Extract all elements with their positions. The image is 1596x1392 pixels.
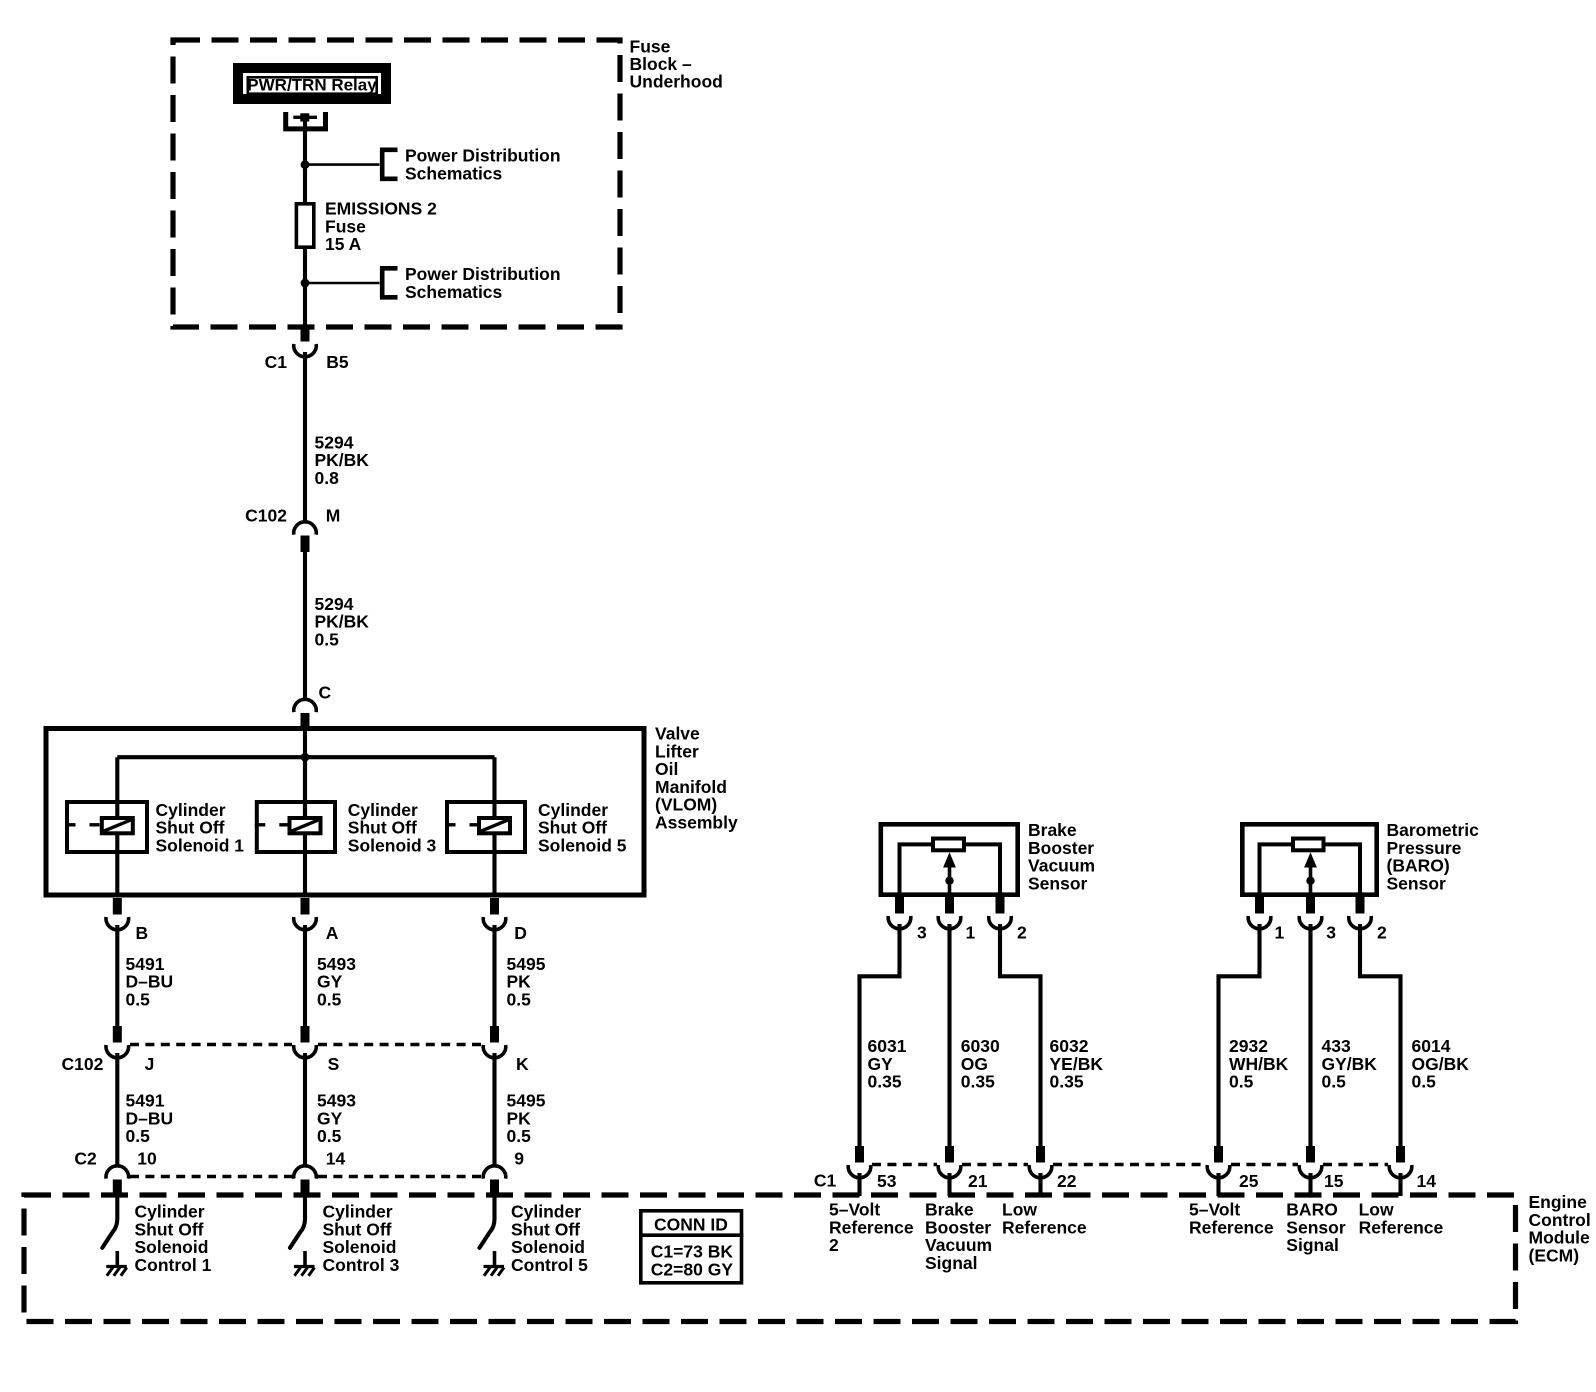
label: Power Distribution Schematics (upper) bbox=[405, 146, 561, 184]
svg-text:Assembly: Assembly bbox=[655, 813, 738, 833]
wire: bus drop to cylinder shut off solenoid 1 bbox=[115, 757, 119, 818]
svg-text:C102: C102 bbox=[245, 506, 287, 526]
label: Power Distribution Schematics (lower) bbox=[405, 264, 561, 302]
wire 6032 YE/BK 0.35 bbox=[1000, 924, 1041, 1146]
wire: pin 22 into ECM bbox=[1038, 1173, 1042, 1196]
svg-text:D: D bbox=[514, 923, 527, 943]
brake booster vacuum wiper junction dot bbox=[945, 877, 953, 885]
wire 6014 OG/BK 0.5 bbox=[1360, 924, 1401, 1146]
solenoid L1 coil body (rect with diagonal) bbox=[102, 818, 133, 833]
inline connector C102 dashed tie line (S-K) bbox=[318, 1043, 482, 1047]
solenoid L5 armature dashes bbox=[445, 823, 480, 826]
label: brake booster vacuum pin 1 bbox=[966, 922, 976, 942]
svg-text:B: B bbox=[136, 923, 149, 943]
label: ECM function 5–Volt Reference bbox=[1189, 1200, 1274, 1238]
svg-text:2: 2 bbox=[829, 1235, 839, 1255]
label: pin 14 bbox=[326, 1149, 346, 1169]
BARO connector pin 2 bbox=[1349, 897, 1372, 929]
svg-text:Sensor: Sensor bbox=[1387, 873, 1447, 893]
svg-text:C: C bbox=[319, 683, 332, 703]
brake booster vacuum sensor box bbox=[881, 824, 1018, 894]
label: BARO pin 3 bbox=[1326, 922, 1336, 942]
svg-text:15 A: 15 A bbox=[325, 234, 362, 254]
brake booster vacuum wiper arrow bbox=[943, 852, 956, 897]
svg-text:0.5: 0.5 bbox=[126, 1126, 151, 1146]
label: Cylinder Shut Off Solenoid 5 bbox=[538, 800, 627, 856]
svg-text:Control 5: Control 5 bbox=[511, 1255, 588, 1275]
label: pin 22 bbox=[1057, 1171, 1077, 1191]
label: Cylinder Shut Off Solenoid Control 3 bbox=[323, 1202, 400, 1275]
label: brake booster vacuum pin 3 bbox=[917, 922, 927, 942]
label: 5491 D–BU 0.5 (lower) bbox=[126, 1091, 174, 1147]
svg-text:Reference: Reference bbox=[829, 1217, 914, 1237]
label: EMISSIONS 2 Fuse 15 A bbox=[325, 199, 437, 255]
junction node (above fuse) bbox=[301, 160, 310, 169]
ground (chassis) for driver 5 bbox=[484, 1267, 505, 1276]
label: 6030 OG 0.35 bbox=[961, 1036, 1000, 1092]
svg-text:0.5: 0.5 bbox=[317, 989, 342, 1009]
label: BARO sensor name bbox=[1387, 820, 1480, 893]
brake booster vacuum connector pin 1 bbox=[938, 897, 961, 929]
svg-text:S: S bbox=[328, 1054, 340, 1074]
label: ECM function Low Reference bbox=[1359, 1200, 1444, 1238]
BARO wiper arrow bbox=[1304, 852, 1317, 897]
label: 433 GY/BK 0.5 bbox=[1322, 1036, 1378, 1092]
svg-text:Reference: Reference bbox=[1189, 1217, 1274, 1237]
wire 5495 PK (lower run) bbox=[492, 1053, 496, 1165]
label: C102 (lower inline connector) bbox=[62, 1054, 104, 1074]
wire: pin 14 into ECM bbox=[1398, 1173, 1402, 1196]
BARO pot right wire bbox=[1326, 844, 1361, 895]
svg-text:10: 10 bbox=[137, 1149, 157, 1169]
label: pin K bbox=[516, 1054, 529, 1074]
connector VLOM pin A bbox=[294, 898, 317, 930]
svg-text:53: 53 bbox=[877, 1171, 897, 1191]
label: PWR/TRN Relay bbox=[247, 76, 377, 95]
brake booster vacuum connector pin 2 bbox=[989, 897, 1012, 929]
svg-text:0.5: 0.5 bbox=[1229, 1072, 1254, 1092]
connector VLOM pin B bbox=[106, 898, 129, 930]
label: pin A bbox=[326, 923, 339, 943]
connector C1 pin B5 (fuse block exit) bbox=[294, 325, 317, 357]
connector C1 dashed tie line (segment 5) bbox=[1323, 1163, 1388, 1167]
connector C1 pin 53 bbox=[848, 1146, 871, 1178]
svg-text:Schematics: Schematics bbox=[405, 163, 503, 183]
transistor switch: solenoid control driver 1 bbox=[102, 1196, 117, 1248]
label: BARO pin 2 bbox=[1377, 922, 1387, 942]
svg-text:0.5: 0.5 bbox=[1412, 1072, 1437, 1092]
svg-text:Schematics: Schematics bbox=[405, 282, 503, 302]
svg-text:0.35: 0.35 bbox=[1050, 1072, 1084, 1092]
svg-text:C2: C2 bbox=[74, 1149, 97, 1169]
svg-text:C1: C1 bbox=[265, 352, 288, 372]
relay contact symbol (U bracket with T stem) bbox=[286, 112, 326, 129]
label: C2 bbox=[74, 1149, 97, 1169]
connector C1 pin 21 bbox=[938, 1146, 961, 1178]
junction node (below fuse) bbox=[301, 279, 310, 288]
connector C2 pin 9 bbox=[483, 1166, 506, 1196]
label: C2=80 GY bbox=[651, 1259, 734, 1279]
svg-text:21: 21 bbox=[968, 1171, 988, 1191]
wire 5294 PK/BK 0.8 bbox=[303, 352, 307, 521]
svg-text:25: 25 bbox=[1239, 1171, 1259, 1191]
connector C1 dashed tie line (segment 4) bbox=[1231, 1163, 1298, 1167]
junction node on VLOM bus bbox=[301, 753, 310, 762]
connector C1 dashed tie line (segment 3) bbox=[1053, 1163, 1206, 1167]
BARO pot left wire bbox=[1260, 844, 1292, 895]
svg-text:0.5: 0.5 bbox=[126, 989, 151, 1009]
connector C102 pin K bbox=[483, 1026, 506, 1058]
brake booster vacuum connector pin 3 bbox=[888, 897, 911, 929]
label: 2932 WH/BK 0.5 bbox=[1229, 1036, 1289, 1092]
svg-text:0.5: 0.5 bbox=[315, 630, 340, 650]
label: Cylinder Shut Off Solenoid 1 bbox=[156, 800, 245, 856]
label: BARO pin 1 bbox=[1275, 922, 1285, 942]
transistor switch: solenoid control driver 5 bbox=[480, 1196, 495, 1248]
label: B5 bbox=[326, 352, 349, 372]
label: pin D bbox=[514, 923, 527, 943]
label: 5491 D–BU 0.5 (upper) bbox=[126, 954, 174, 1010]
connector C102 pin M (upper half) bbox=[294, 522, 317, 552]
label: pin S bbox=[328, 1054, 340, 1074]
wire: driver 1 fixed contact bbox=[116, 1251, 120, 1267]
solenoid L5: Cylinder Shut Off Solenoid 5 (outline box) bbox=[447, 802, 525, 852]
connector C1 pin 22 bbox=[1029, 1146, 1052, 1178]
svg-text:K: K bbox=[516, 1054, 529, 1074]
wire 5495 PK (upper run) bbox=[492, 925, 496, 1026]
label: Valve Lifter Oil Manifold (VLOM) Assembly bbox=[655, 724, 738, 833]
svg-text:1: 1 bbox=[966, 922, 976, 942]
svg-text:(ECM): (ECM) bbox=[1529, 1245, 1580, 1265]
solenoid L3: Cylinder Shut Off Solenoid 3 (outline box) bbox=[257, 802, 335, 852]
svg-text:Reference: Reference bbox=[1002, 1217, 1087, 1237]
wire: driver 5 fixed contact bbox=[493, 1251, 497, 1267]
label: pin B bbox=[136, 923, 149, 943]
connector C2 dashed tie line (14-9) bbox=[318, 1175, 482, 1179]
svg-text:0.5: 0.5 bbox=[507, 1126, 532, 1146]
connector C2 dashed tie line (10-14) bbox=[130, 1175, 292, 1179]
off-page reference bracket (lower) bbox=[382, 268, 397, 297]
wire: solenoid 3 to VLOM edge bbox=[303, 835, 307, 897]
connector C102 pin J bbox=[106, 1026, 129, 1058]
solenoid L3 armature dashes bbox=[255, 823, 289, 826]
label: C1=73 BK bbox=[651, 1242, 734, 1262]
wire: relay output down through fuse block bbox=[303, 119, 307, 326]
svg-text:Underhood: Underhood bbox=[630, 72, 723, 92]
wire 5493 GY (upper run) bbox=[303, 925, 307, 1026]
CONN ID table (box) bbox=[639, 1211, 743, 1283]
svg-text:22: 22 bbox=[1057, 1171, 1077, 1191]
label: Cylinder Shut Off Solenoid Control 1 bbox=[135, 1202, 212, 1275]
brake booster vacuum pot left wire bbox=[900, 844, 932, 895]
label: C bbox=[319, 683, 332, 703]
label: pin 9 bbox=[514, 1149, 524, 1169]
label: 5495 PK 0.5 (lower) bbox=[507, 1091, 546, 1147]
solenoid L5 coil body (rect with diagonal) bbox=[479, 818, 510, 833]
label: 5294 PK/BK 0.8 bbox=[315, 432, 370, 488]
connector C1 dashed tie line (segment 2) bbox=[962, 1163, 1028, 1167]
BARO wiper junction dot bbox=[1306, 877, 1314, 885]
svg-text:0.5: 0.5 bbox=[317, 1126, 342, 1146]
label: pin 10 bbox=[137, 1149, 157, 1169]
valve lifter oil manifold (VLOM) assembly box bbox=[46, 729, 644, 896]
svg-text:C2=80 GY: C2=80 GY bbox=[651, 1259, 734, 1279]
wire: pin 53 into ECM bbox=[857, 1173, 861, 1196]
engine control module (ECM) dashed outline box bbox=[24, 1195, 1516, 1322]
wire 5294 PK/BK 0.5 bbox=[303, 550, 307, 699]
svg-text:PWR/TRN Relay: PWR/TRN Relay bbox=[247, 76, 377, 95]
label: Cylinder Shut Off Solenoid Control 5 bbox=[511, 1202, 588, 1275]
label: C102 (inline connector) bbox=[245, 506, 287, 526]
wire 5491 D–BU (lower run) bbox=[115, 1053, 119, 1165]
wire 433 GY/BK 0.5 bbox=[1308, 924, 1312, 1146]
wire: pin 25 into ECM bbox=[1216, 1173, 1220, 1196]
svg-text:M: M bbox=[326, 506, 341, 526]
solenoid L1: Cylinder Shut Off Solenoid 1 (outline box) bbox=[67, 802, 147, 852]
svg-text:2: 2 bbox=[1377, 922, 1387, 942]
BARO potentiometer body bbox=[1293, 839, 1324, 851]
connector C2 pin 14 bbox=[294, 1166, 317, 1196]
svg-text:9: 9 bbox=[514, 1149, 524, 1169]
wire: solenoid 5 to VLOM edge bbox=[492, 835, 496, 897]
connector C2 pin 10 bbox=[106, 1166, 129, 1196]
svg-text:0.35: 0.35 bbox=[868, 1072, 902, 1092]
svg-text:Signal: Signal bbox=[925, 1253, 978, 1273]
wire: bus drop to cylinder shut off solenoid 5 bbox=[492, 757, 496, 818]
BARO sensor box bbox=[1242, 824, 1376, 894]
svg-text:0.5: 0.5 bbox=[1322, 1072, 1347, 1092]
off-page reference bracket (upper) bbox=[382, 150, 397, 179]
wire: branch to Power Distribution (lower) bbox=[305, 282, 380, 285]
wire 5493 GY (lower run) bbox=[303, 1053, 307, 1165]
BARO connector pin 1 bbox=[1248, 897, 1271, 929]
label: ECM function BARO Sensor Signal bbox=[1286, 1200, 1346, 1256]
label: 6014 OG/BK 0.5 bbox=[1412, 1036, 1470, 1092]
ground (chassis) for driver 1 bbox=[106, 1267, 127, 1276]
svg-text:C1: C1 bbox=[814, 1171, 837, 1191]
connector C1 dashed tie line (segment 1) bbox=[872, 1163, 937, 1167]
wire: pin 21 into ECM bbox=[947, 1173, 951, 1196]
label: 5493 GY 0.5 (upper) bbox=[317, 954, 356, 1010]
connector C1 pin 14 bbox=[1389, 1146, 1412, 1178]
label: Engine Control Module (ECM) bbox=[1529, 1192, 1591, 1265]
svg-text:14: 14 bbox=[326, 1149, 346, 1169]
label: brake booster vacuum pin 2 bbox=[1017, 922, 1027, 942]
solenoid L3 coil body (rect with diagonal) bbox=[290, 818, 321, 833]
svg-text:3: 3 bbox=[1326, 922, 1336, 942]
fuse block - underhood (dashed outline box) bbox=[173, 40, 620, 327]
label: 5493 GY 0.5 (lower) bbox=[317, 1091, 356, 1147]
wire: pin 15 into ECM bbox=[1308, 1173, 1312, 1196]
label: pin 25 bbox=[1239, 1171, 1259, 1191]
wire: branch to Power Distribution (upper) bbox=[305, 163, 380, 166]
label: pin 14 bbox=[1417, 1171, 1437, 1191]
label: pin 15 bbox=[1324, 1171, 1344, 1191]
label: pin 21 bbox=[968, 1171, 988, 1191]
label: 6032 YE/BK 0.35 bbox=[1050, 1036, 1104, 1092]
label: Fuse Block - Underhood bbox=[630, 37, 723, 92]
svg-text:Signal: Signal bbox=[1286, 1235, 1339, 1255]
solenoid L1 armature dashes bbox=[65, 823, 100, 826]
wire: solenoid 1 to VLOM edge bbox=[115, 835, 119, 897]
wire 6030 OG 0.35 bbox=[947, 924, 951, 1146]
connector pin C (VLOM entry) bbox=[294, 699, 317, 729]
svg-text:15: 15 bbox=[1324, 1171, 1344, 1191]
svg-text:1: 1 bbox=[1275, 922, 1285, 942]
svg-text:Control 1: Control 1 bbox=[135, 1255, 212, 1275]
label: C1 bbox=[265, 352, 288, 372]
svg-text:14: 14 bbox=[1417, 1171, 1437, 1191]
label: brake booster vacuum sensor name bbox=[1028, 820, 1095, 893]
svg-text:A: A bbox=[326, 923, 339, 943]
label: ECM function 5–Volt Reference 2 bbox=[829, 1200, 914, 1256]
ground (chassis) for driver 3 bbox=[294, 1267, 315, 1276]
label: C1 (ECM connector) bbox=[814, 1171, 837, 1191]
svg-text:J: J bbox=[145, 1054, 155, 1074]
label: 6031 GY 0.35 bbox=[868, 1036, 907, 1092]
svg-text:Solenoid 3: Solenoid 3 bbox=[348, 835, 437, 855]
svg-text:CONN ID: CONN ID bbox=[654, 1215, 728, 1235]
connector C1 pin 25 bbox=[1207, 1146, 1230, 1178]
svg-text:2: 2 bbox=[1017, 922, 1027, 942]
brake booster vacuum potentiometer body bbox=[933, 839, 964, 851]
relay PWR/TRN Relay (bold box) bbox=[238, 68, 386, 99]
label: pin J bbox=[145, 1054, 155, 1074]
BARO connector pin 3 bbox=[1299, 897, 1322, 929]
svg-text:C102: C102 bbox=[62, 1054, 104, 1074]
svg-text:0.35: 0.35 bbox=[961, 1072, 995, 1092]
wire 2932 WH/BK 0.5 bbox=[1219, 924, 1260, 1146]
svg-text:3: 3 bbox=[917, 922, 927, 942]
wire: driver 3 fixed contact bbox=[303, 1251, 307, 1267]
wire: C into VLOM bus bbox=[303, 726, 307, 818]
svg-text:Solenoid 5: Solenoid 5 bbox=[538, 835, 627, 855]
svg-text:0.8: 0.8 bbox=[315, 468, 340, 488]
connector C102 pin S bbox=[294, 1026, 317, 1058]
wire 5491 D–BU (upper run) bbox=[115, 925, 119, 1026]
svg-text:0.5: 0.5 bbox=[507, 989, 532, 1009]
svg-text:B5: B5 bbox=[326, 352, 349, 372]
label: 5294 PK/BK 0.5 bbox=[315, 594, 370, 650]
bus wire inside VLOM bbox=[117, 755, 494, 759]
svg-text:Control 3: Control 3 bbox=[323, 1255, 400, 1275]
label: pin 53 bbox=[877, 1171, 897, 1191]
transistor switch: solenoid control driver 3 bbox=[290, 1196, 305, 1248]
label: M bbox=[326, 506, 341, 526]
label: 5495 PK 0.5 (upper) bbox=[507, 954, 546, 1010]
svg-text:Solenoid 1: Solenoid 1 bbox=[156, 835, 245, 855]
label: ECM function Brake Booster Vacuum Signal bbox=[925, 1200, 992, 1273]
label: CONN ID header bbox=[654, 1215, 728, 1235]
connector VLOM pin D bbox=[483, 898, 506, 930]
fuse EMISSIONS 2 15A (fuse body) bbox=[296, 204, 313, 247]
label: Cylinder Shut Off Solenoid 3 bbox=[348, 800, 437, 856]
wire 6031 GY 0.35 bbox=[860, 924, 900, 1146]
inline connector C102 dashed tie line (J-S) bbox=[130, 1043, 292, 1047]
wire: bus drop to cylinder shut off solenoid 3 bbox=[303, 757, 307, 818]
svg-text:Sensor: Sensor bbox=[1028, 873, 1088, 893]
svg-text:Reference: Reference bbox=[1359, 1217, 1444, 1237]
brake booster vacuum pot right wire bbox=[966, 844, 1000, 895]
connector C1 pin 15 bbox=[1299, 1146, 1322, 1178]
label: ECM function Low Reference bbox=[1002, 1200, 1087, 1238]
